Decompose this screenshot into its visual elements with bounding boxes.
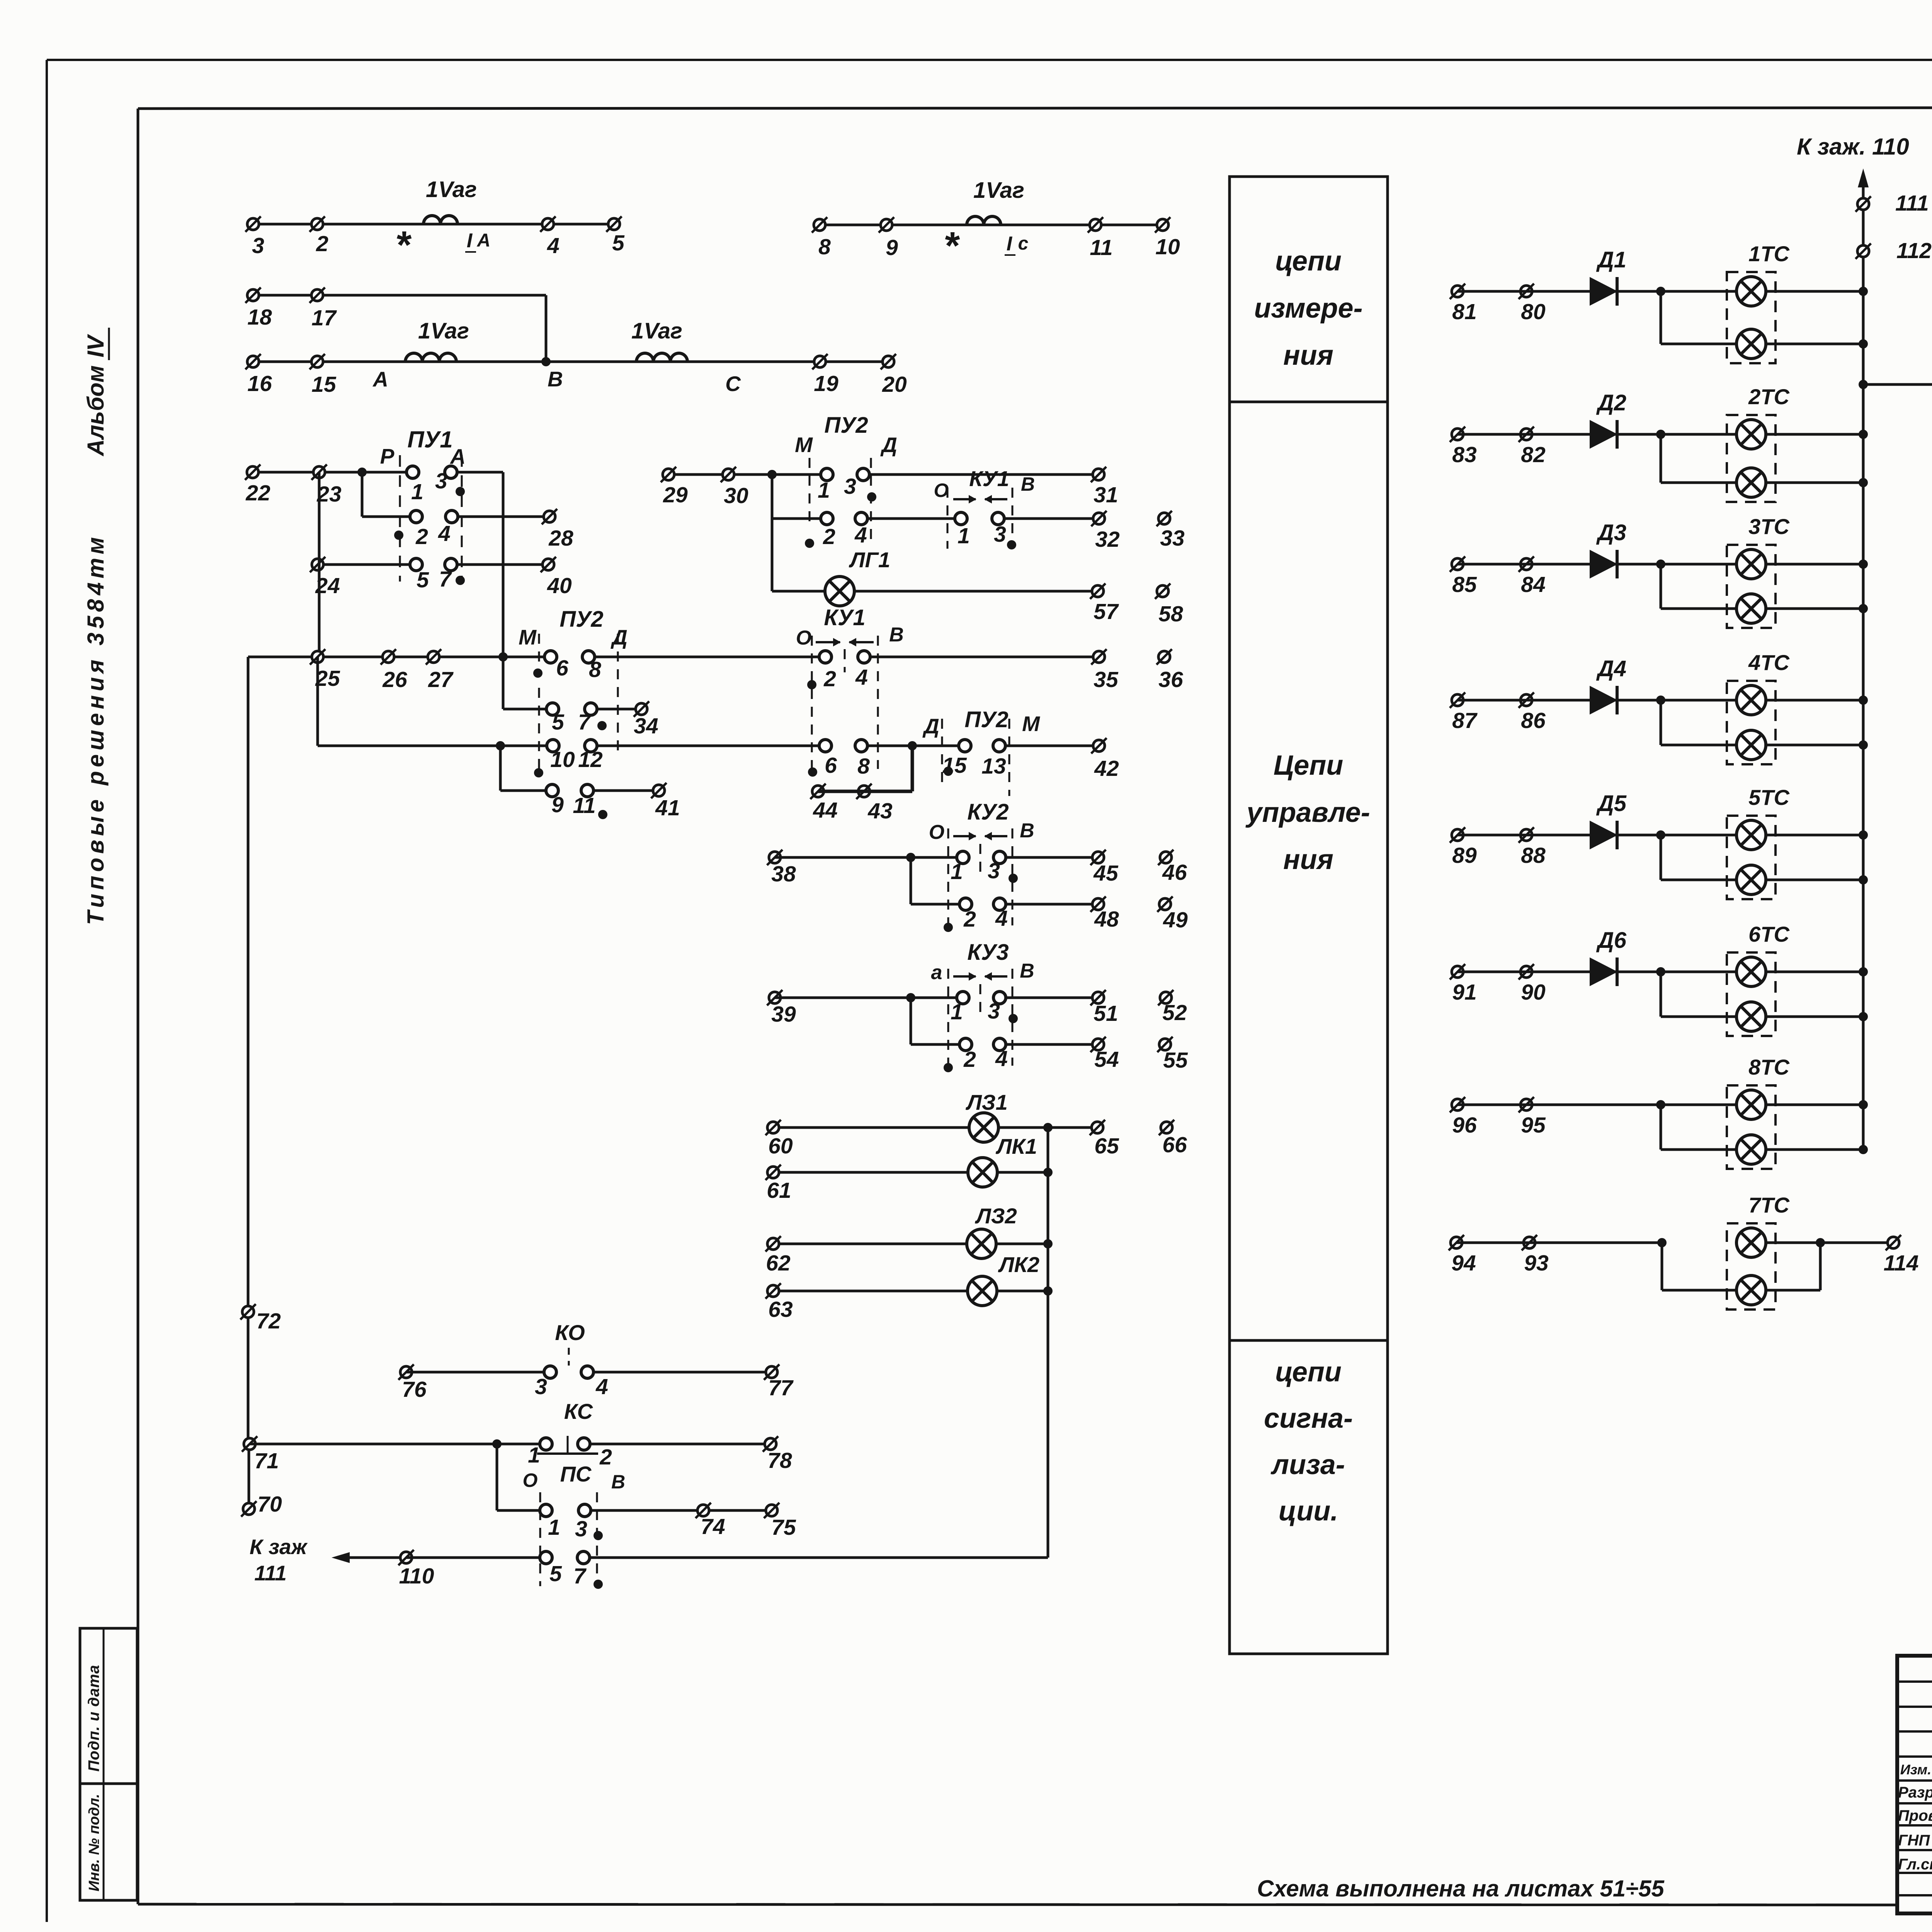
- svg-text:Разраб.: Разраб.: [1898, 1784, 1932, 1801]
- svg-text:93: 93: [1524, 1251, 1549, 1276]
- svg-text:ЛЗ2: ЛЗ2: [975, 1204, 1017, 1228]
- svg-text:89: 89: [1452, 843, 1477, 868]
- svg-text:10: 10: [550, 747, 575, 772]
- svg-text:ПУ2: ПУ2: [964, 707, 1008, 732]
- svg-text:95: 95: [1521, 1113, 1546, 1138]
- svg-text:3: 3: [994, 522, 1006, 547]
- svg-text:19: 19: [814, 371, 838, 396]
- svg-text:65: 65: [1094, 1134, 1119, 1158]
- svg-text:ПУ1: ПУ1: [407, 427, 452, 452]
- svg-text:*: *: [945, 224, 960, 267]
- svg-text:В: В: [1020, 820, 1034, 842]
- svg-text:3: 3: [535, 1374, 547, 1399]
- svg-text:В: В: [889, 624, 904, 646]
- svg-text:20: 20: [882, 372, 907, 397]
- svg-text:2: 2: [316, 231, 328, 256]
- svg-text:63: 63: [768, 1297, 793, 1322]
- svg-text:86: 86: [1521, 708, 1546, 733]
- svg-text:8: 8: [589, 657, 601, 682]
- svg-text:27: 27: [428, 667, 454, 692]
- svg-text:ЛГ1: ЛГ1: [849, 548, 890, 572]
- svg-text:5: 5: [612, 231, 625, 255]
- svg-text:83: 83: [1452, 442, 1477, 467]
- svg-text:52: 52: [1162, 1000, 1187, 1025]
- svg-text:Инв. № подл.: Инв. № подл.: [86, 1794, 102, 1891]
- svg-text:81: 81: [1452, 299, 1476, 324]
- svg-text:72: 72: [256, 1309, 281, 1333]
- svg-text:4: 4: [855, 665, 868, 690]
- svg-text:34: 34: [634, 714, 658, 738]
- svg-text:Д3: Д3: [1596, 520, 1626, 545]
- svg-text:КО: КО: [555, 1320, 585, 1345]
- svg-text:31: 31: [1094, 483, 1118, 507]
- svg-text:75: 75: [771, 1515, 796, 1540]
- svg-text:13: 13: [981, 754, 1006, 779]
- svg-text:71: 71: [254, 1449, 279, 1473]
- svg-text:Д4: Д4: [1596, 656, 1626, 681]
- svg-text:2ТС: 2ТС: [1748, 384, 1790, 409]
- svg-text:цепи: цепи: [1275, 246, 1342, 277]
- svg-text:4: 4: [595, 1374, 608, 1399]
- svg-text:5ТС: 5ТС: [1748, 785, 1790, 810]
- svg-text:Изм.: Изм.: [1900, 1762, 1931, 1777]
- svg-text:ЛЗ1: ЛЗ1: [965, 1090, 1008, 1114]
- svg-text:78: 78: [767, 1448, 792, 1473]
- svg-text:ции.: ции.: [1279, 1496, 1338, 1527]
- svg-text:111: 111: [254, 1561, 287, 1585]
- svg-text:38: 38: [771, 862, 796, 886]
- svg-text:66: 66: [1162, 1133, 1187, 1157]
- svg-text:15: 15: [311, 372, 337, 397]
- svg-text:1: 1: [548, 1515, 560, 1540]
- svg-text:51: 51: [1094, 1001, 1118, 1026]
- svg-text:7: 7: [573, 1564, 587, 1588]
- svg-text:4ТС: 4ТС: [1748, 650, 1790, 675]
- svg-text:I: I: [467, 230, 473, 252]
- svg-text:I: I: [1007, 233, 1013, 255]
- svg-text:62: 62: [766, 1251, 791, 1276]
- svg-text:Проверил: Проверил: [1898, 1807, 1932, 1824]
- svg-text:35: 35: [1094, 667, 1119, 692]
- svg-text:М: М: [519, 625, 537, 649]
- svg-text:КС: КС: [564, 1399, 594, 1423]
- svg-text:6: 6: [825, 753, 837, 778]
- svg-text:112: 112: [1896, 238, 1932, 263]
- svg-text:54: 54: [1094, 1047, 1119, 1072]
- svg-text:84: 84: [1521, 572, 1545, 597]
- svg-text:46: 46: [1162, 860, 1187, 885]
- svg-text:В: В: [548, 367, 563, 391]
- svg-text:7: 7: [578, 710, 591, 735]
- svg-text:Подп. и дата: Подп. и дата: [85, 1665, 102, 1772]
- svg-text:2: 2: [415, 524, 428, 549]
- svg-text:1: 1: [411, 480, 423, 504]
- svg-text:4: 4: [995, 906, 1008, 931]
- svg-text:цепи: цепи: [1275, 1357, 1342, 1388]
- svg-text:О: О: [929, 821, 944, 844]
- svg-text:лиза-: лиза-: [1270, 1449, 1345, 1480]
- svg-text:91: 91: [1452, 980, 1476, 1005]
- svg-text:К заж: К заж: [250, 1535, 308, 1559]
- svg-text:КУ3: КУ3: [967, 940, 1009, 965]
- svg-text:28: 28: [548, 526, 573, 551]
- svg-text:74: 74: [701, 1514, 725, 1539]
- svg-text:ГНП: ГНП: [1898, 1832, 1930, 1849]
- svg-text:сигна-: сигна-: [1264, 1403, 1353, 1434]
- svg-text:Д: Д: [880, 433, 897, 457]
- svg-text:36: 36: [1158, 667, 1183, 692]
- svg-text:60: 60: [768, 1134, 793, 1158]
- svg-text:ПУ2: ПУ2: [824, 413, 868, 438]
- svg-text:4: 4: [547, 233, 560, 258]
- svg-text:4: 4: [995, 1046, 1008, 1071]
- svg-text:55: 55: [1163, 1048, 1188, 1073]
- svg-text:измере-: измере-: [1254, 293, 1362, 324]
- svg-text:7: 7: [439, 567, 452, 592]
- svg-text:76: 76: [402, 1377, 427, 1402]
- svg-text:М: М: [795, 433, 813, 457]
- svg-text:1: 1: [818, 478, 830, 503]
- svg-text:Д5: Д5: [1596, 791, 1627, 816]
- svg-text:Д: Д: [922, 714, 939, 738]
- svg-text:ЛК2: ЛК2: [998, 1252, 1039, 1277]
- svg-text:57: 57: [1094, 599, 1119, 624]
- svg-text:ния: ния: [1283, 340, 1333, 371]
- svg-text:КУ1: КУ1: [824, 605, 865, 630]
- svg-text:В: В: [1020, 960, 1034, 982]
- svg-text:30: 30: [724, 483, 748, 508]
- svg-text:Д6: Д6: [1596, 928, 1627, 953]
- svg-text:18: 18: [247, 305, 272, 330]
- svg-text:41: 41: [655, 796, 680, 820]
- svg-text:ПУ2: ПУ2: [560, 607, 603, 632]
- svg-text:2: 2: [963, 1047, 976, 1072]
- svg-text:с: с: [1018, 233, 1029, 254]
- svg-text:22: 22: [245, 481, 270, 505]
- svg-text:7ТС: 7ТС: [1748, 1193, 1790, 1217]
- svg-text:48: 48: [1094, 907, 1119, 932]
- svg-text:70: 70: [257, 1492, 282, 1517]
- svg-text:9: 9: [551, 793, 564, 817]
- svg-text:6: 6: [556, 656, 568, 680]
- svg-text:8ТС: 8ТС: [1748, 1055, 1790, 1079]
- svg-text:40: 40: [547, 573, 572, 598]
- svg-text:26: 26: [382, 667, 407, 692]
- svg-text:4: 4: [854, 523, 867, 548]
- svg-text:11: 11: [573, 793, 595, 818]
- svg-text:управле-: управле-: [1245, 797, 1370, 828]
- svg-text:1Vaг: 1Vaг: [426, 177, 477, 202]
- svg-text:1Vaг: 1Vaг: [631, 318, 682, 344]
- svg-text:10: 10: [1155, 235, 1180, 259]
- svg-text:3: 3: [252, 233, 264, 258]
- svg-text:1Vaг: 1Vaг: [418, 318, 469, 344]
- svg-text:1ТС: 1ТС: [1748, 241, 1790, 266]
- svg-text:87: 87: [1452, 708, 1478, 733]
- svg-text:ния: ния: [1283, 844, 1333, 875]
- svg-text:58: 58: [1158, 602, 1183, 626]
- svg-text:ЛК1: ЛК1: [995, 1134, 1037, 1158]
- svg-text:3: 3: [575, 1517, 587, 1541]
- svg-text:К заж. 110: К заж. 110: [1797, 134, 1909, 160]
- svg-text:32: 32: [1095, 527, 1120, 552]
- svg-text:82: 82: [1521, 442, 1546, 467]
- svg-text:Д1: Д1: [1596, 247, 1626, 272]
- svg-text:2: 2: [599, 1445, 612, 1469]
- svg-text:КУ1: КУ1: [969, 466, 1009, 491]
- svg-text:110: 110: [399, 1564, 434, 1588]
- svg-text:В: В: [611, 1471, 625, 1493]
- svg-text:Схема выполнена на листах: Схема выполнена на листах 51÷55: [1257, 1876, 1665, 1901]
- svg-text:33: 33: [1160, 526, 1185, 551]
- svg-text:5: 5: [417, 568, 429, 592]
- svg-text:Типовые решения 3584тм: Типовые решения 3584тм: [83, 533, 109, 925]
- svg-text:39: 39: [771, 1002, 796, 1027]
- svg-text:IV: IV: [83, 333, 109, 357]
- svg-text:45: 45: [1093, 861, 1119, 886]
- svg-text:44: 44: [813, 798, 837, 823]
- svg-text:61: 61: [767, 1178, 791, 1203]
- svg-text:5: 5: [549, 1561, 562, 1586]
- svg-text:114: 114: [1884, 1251, 1919, 1276]
- svg-text:2: 2: [823, 667, 836, 691]
- svg-text:Альбом: Альбом: [83, 366, 109, 457]
- svg-text:12: 12: [578, 747, 603, 772]
- svg-text:42: 42: [1094, 756, 1119, 781]
- svg-text:1: 1: [528, 1443, 540, 1468]
- svg-text:8: 8: [857, 754, 870, 779]
- svg-text:80: 80: [1521, 299, 1546, 324]
- svg-text:6ТС: 6ТС: [1748, 922, 1790, 946]
- svg-text:11: 11: [1090, 235, 1112, 260]
- svg-text:29: 29: [663, 483, 688, 507]
- svg-text:88: 88: [1521, 843, 1546, 868]
- svg-text:16: 16: [247, 371, 272, 396]
- svg-text:8: 8: [818, 235, 831, 259]
- svg-text:5: 5: [552, 710, 565, 735]
- svg-text:3: 3: [988, 859, 1000, 883]
- svg-text:85: 85: [1452, 572, 1477, 597]
- svg-text:Гл.спец.: Гл.спец.: [1898, 1856, 1932, 1873]
- svg-text:94: 94: [1451, 1251, 1476, 1276]
- svg-text:4: 4: [438, 521, 451, 546]
- svg-text:96: 96: [1452, 1113, 1477, 1138]
- svg-text:Д: Д: [611, 625, 628, 649]
- svg-text:С: С: [725, 372, 741, 396]
- svg-text:17: 17: [311, 306, 337, 330]
- svg-text:М: М: [1022, 712, 1040, 736]
- svg-text:3: 3: [435, 469, 447, 493]
- svg-text:КУ2: КУ2: [967, 799, 1009, 825]
- svg-text:А: А: [372, 367, 388, 391]
- svg-text:2: 2: [963, 907, 976, 932]
- svg-text:Р: Р: [380, 444, 395, 468]
- svg-text:49: 49: [1163, 908, 1188, 932]
- svg-text:а: а: [931, 961, 942, 984]
- svg-text:О: О: [796, 627, 811, 649]
- svg-text:2: 2: [823, 524, 835, 549]
- svg-text:О: О: [523, 1469, 538, 1491]
- svg-text:1: 1: [951, 1000, 963, 1024]
- svg-text:3: 3: [844, 474, 856, 499]
- svg-text:А: А: [477, 230, 491, 251]
- svg-text:ПС: ПС: [560, 1462, 592, 1486]
- svg-text:1Vaг: 1Vaг: [973, 178, 1024, 203]
- svg-text:9: 9: [886, 235, 898, 260]
- svg-text:43: 43: [867, 799, 893, 823]
- svg-text:Цепи: Цепи: [1274, 750, 1344, 781]
- svg-text:3: 3: [988, 999, 1000, 1024]
- svg-text:90: 90: [1521, 980, 1546, 1005]
- svg-text:*: *: [397, 223, 412, 267]
- svg-text:1: 1: [957, 524, 970, 548]
- svg-text:111: 111: [1895, 191, 1929, 216]
- svg-text:Д2: Д2: [1596, 390, 1626, 415]
- svg-text:3ТС: 3ТС: [1748, 514, 1790, 539]
- svg-text:В: В: [1021, 473, 1035, 495]
- svg-text:1: 1: [951, 859, 963, 884]
- svg-text:77: 77: [768, 1376, 794, 1400]
